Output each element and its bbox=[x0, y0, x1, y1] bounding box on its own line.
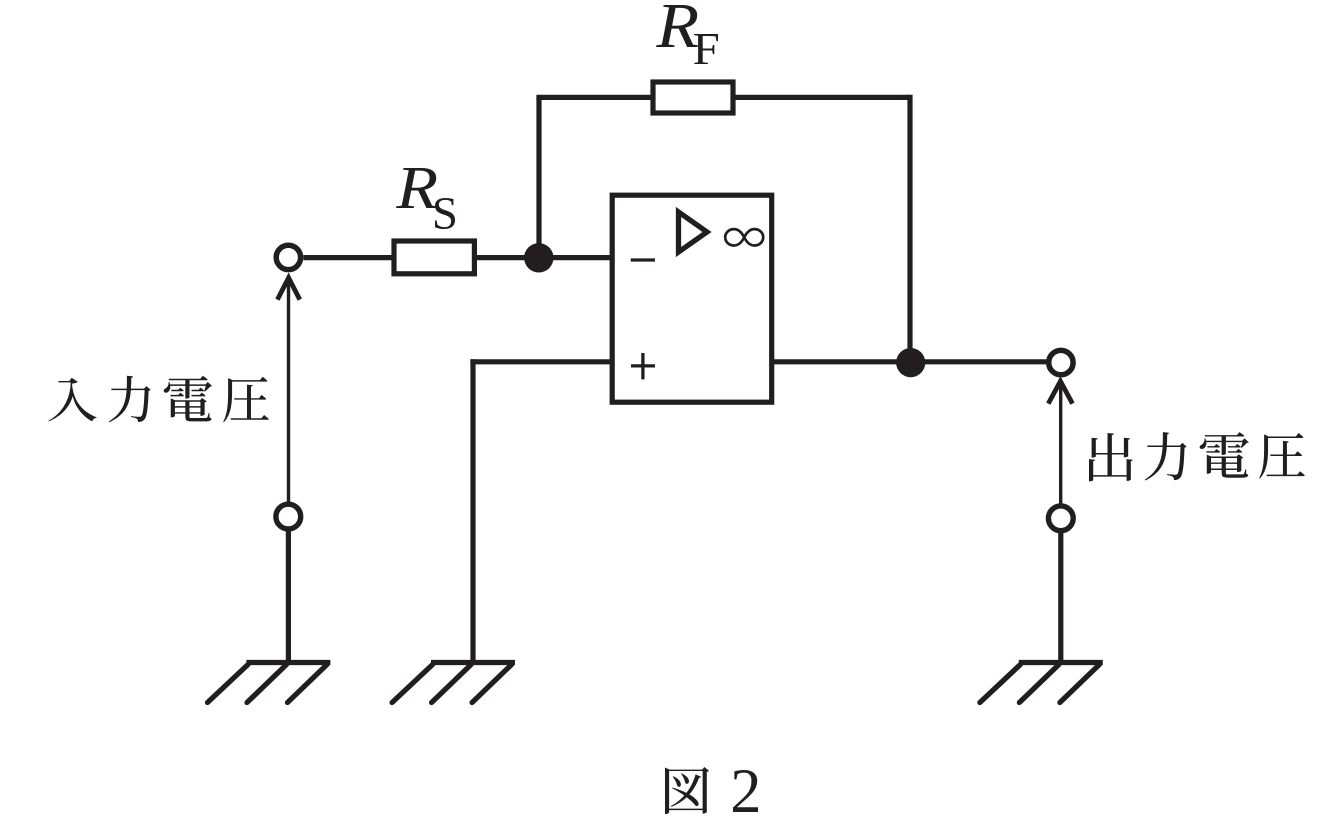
wire: feedback vertical from inverting node up to RF level bbox=[536, 97, 541, 258]
resistor RF body bbox=[653, 82, 733, 113]
op-amp inverting input minus sign bbox=[631, 258, 655, 261]
label output voltage: kanji den bbox=[1200, 432, 1249, 478]
label input voltage: kanji den bbox=[164, 376, 212, 422]
label output voltage: kanji atsu bbox=[1259, 433, 1304, 479]
label RS: subscript S bbox=[435, 198, 455, 229]
op-amp non-inverting input plus sign bbox=[631, 353, 655, 379]
wire: RF right lead to right vertical bbox=[733, 95, 910, 100]
resistor RS body bbox=[394, 241, 474, 274]
ground symbol: non-inverting input bbox=[392, 663, 515, 703]
wire: non-inverting input vertical down to ground bbox=[470, 359, 475, 662]
ground symbol: input branch bbox=[208, 663, 331, 703]
label input voltage: kanji ryoku bbox=[109, 376, 151, 422]
label input voltage: kanji atsu bbox=[223, 377, 269, 423]
label RS: letter R bbox=[396, 168, 437, 208]
label RF: letter R bbox=[656, 5, 698, 47]
wire: RS right lead to op-amp inverting input bbox=[474, 255, 612, 260]
arrow: output voltage open head bbox=[1048, 381, 1072, 403]
terminal: input lower circle bbox=[276, 504, 301, 529]
wire: op-amp output to output terminal bbox=[772, 359, 1047, 364]
terminal: output upper circle bbox=[1049, 350, 1073, 374]
wire: feedback right vertical down to output node bbox=[907, 95, 912, 362]
op-amp infinity gain symbol bbox=[725, 229, 763, 245]
wire: output lower circle down to ground bbox=[1058, 532, 1063, 663]
wire: top horizontal into RF left lead bbox=[536, 95, 653, 100]
terminal: input upper circle bbox=[276, 245, 300, 269]
op-amp gain triangle bbox=[679, 212, 708, 252]
wire: input lower circle down to ground bbox=[286, 531, 291, 663]
junction: inverting input node bbox=[524, 243, 553, 272]
caption: kanji zu (figure) bbox=[665, 767, 709, 814]
wire: input terminal to RS left lead bbox=[303, 255, 394, 260]
label RF: subscript F bbox=[694, 34, 718, 64]
wire: non-inverting input horizontal bbox=[470, 359, 612, 364]
junction: output node bbox=[896, 348, 925, 377]
arrow: output voltage shaft bbox=[1059, 381, 1062, 505]
arrow: input voltage open head bbox=[277, 278, 299, 300]
terminal: output lower circle bbox=[1048, 506, 1073, 531]
label input voltage: kanji nyuu bbox=[48, 378, 96, 422]
label output voltage: kanji shutsu bbox=[1089, 433, 1133, 481]
op-amp U1 body bbox=[612, 195, 772, 402]
ground symbol: output branch bbox=[980, 663, 1103, 703]
label output voltage: kanji ryoku bbox=[1145, 432, 1187, 480]
arrow: input voltage shaft bbox=[287, 277, 290, 503]
caption: figure number 2 bbox=[733, 770, 758, 812]
